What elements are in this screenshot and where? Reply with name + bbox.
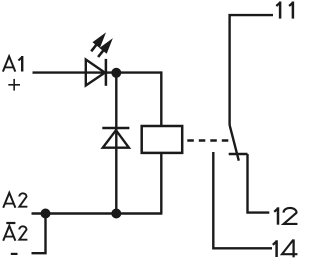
dashed actuation link coil to contact [187, 139, 230, 142]
contact seat bar of terminal 12 [229, 153, 248, 155]
wire node to coil top [160, 71, 162, 126]
wire A2-bar up to A2 node [32, 214, 46, 254]
overbar of A2-bar [6, 222, 15, 224]
terminal node A2 [41, 209, 51, 219]
wire terminal 11 to contact pivot [230, 15, 273, 125]
vertical wire LED node down to A2 wire [115, 73, 117, 214]
polarity mark + [8, 79, 20, 91]
wire to terminal 14 [213, 152, 272, 248]
junction node diode/A2 [111, 209, 121, 219]
LED light arrow 2 [98, 40, 112, 58]
terminal label A2-bar [3, 226, 27, 241]
wire A2 to junction [32, 212, 163, 214]
polarity mark minus [11, 253, 18, 255]
junction node after LED [111, 68, 121, 78]
relay coil [142, 126, 183, 153]
LED triangle (anode) [86, 60, 105, 86]
contact blade [230, 125, 239, 161]
wire coil bottom to A2 wire [160, 153, 162, 214]
terminal label 12 [274, 207, 278, 224]
terminal label A1 [3, 56, 15, 71]
freewheeling diode cathode bar [102, 127, 129, 130]
terminal label 11 [276, 2, 293, 19]
terminal label A2 [3, 193, 27, 208]
wire A1 to LED to node [33, 71, 162, 73]
freewheeling diode triangle [103, 130, 129, 148]
terminal label 14 [273, 240, 277, 257]
LED light arrow 1 [91, 34, 105, 52]
wire to terminal 12 [248, 154, 270, 213]
LED cathode bar [105, 59, 108, 86]
